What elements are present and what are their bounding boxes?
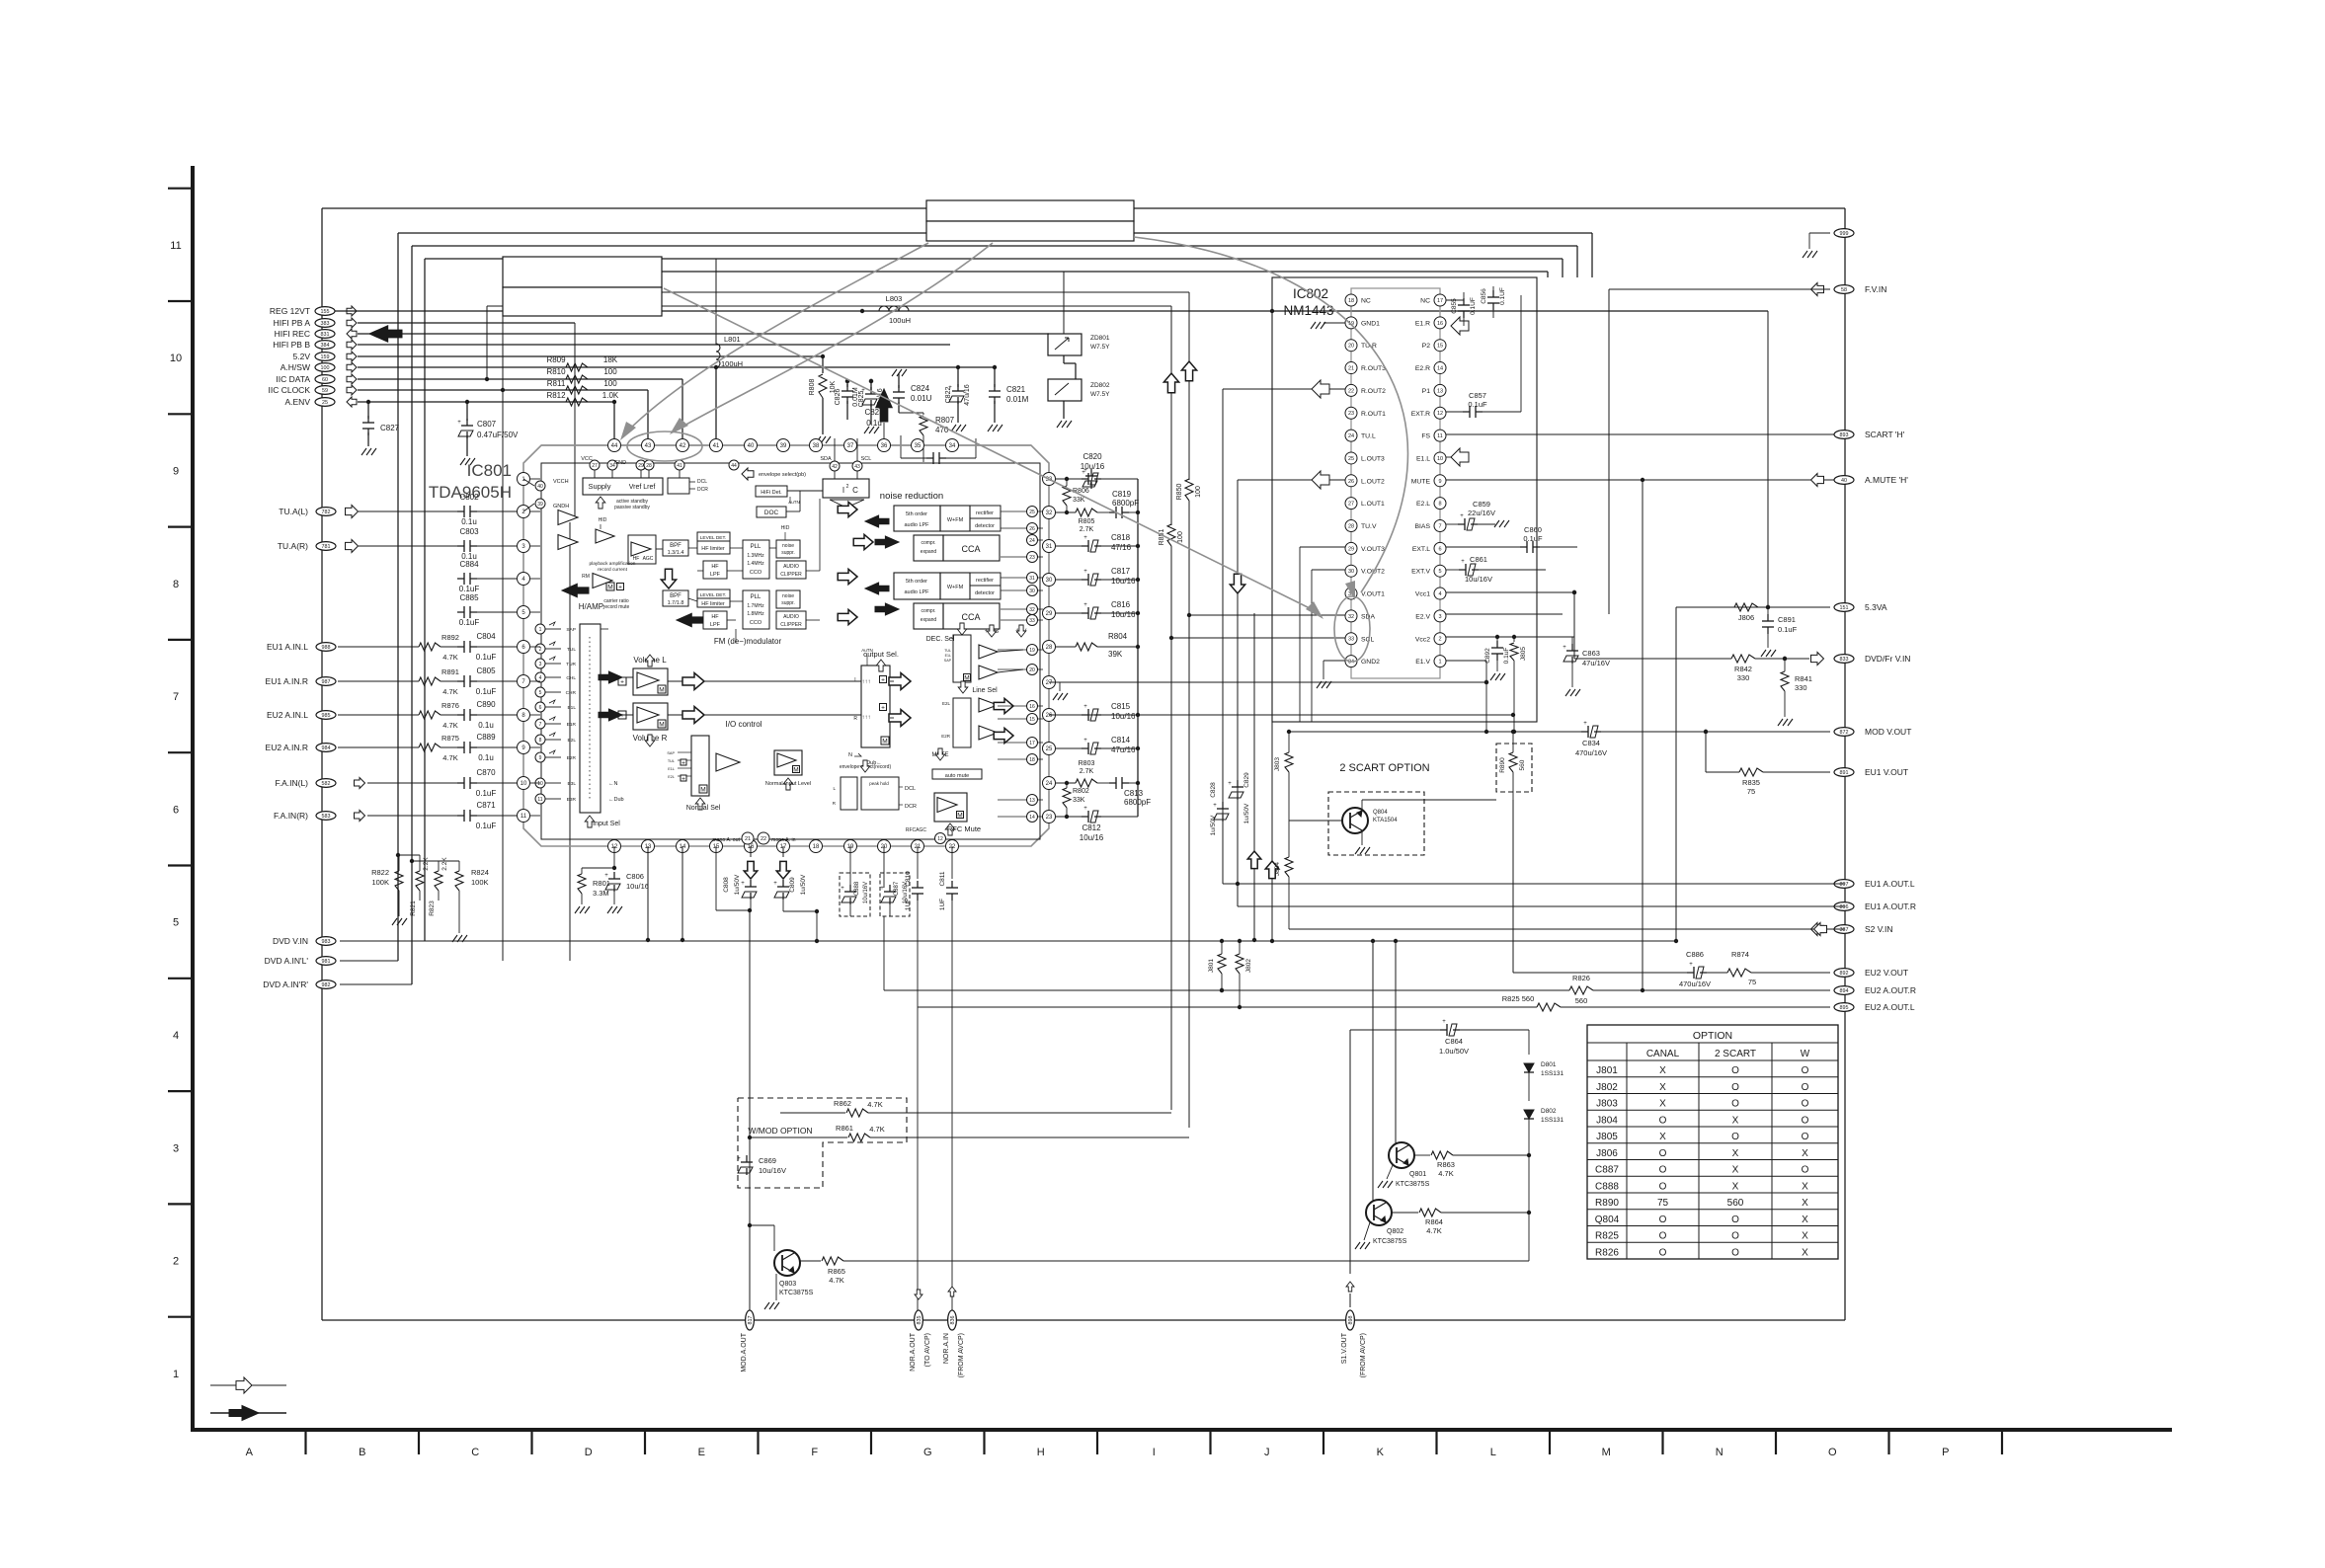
svg-text:W+FM: W+FM (947, 585, 964, 590)
svg-text:29: 29 (1046, 611, 1053, 617)
IC801 interior wires (601, 628, 608, 630)
svg-text:X: X (1802, 1215, 1808, 1225)
svg-text:58: 58 (1841, 287, 1847, 293)
svg-text:CCO: CCO (750, 620, 762, 626)
svg-text:O: O (1659, 1165, 1667, 1176)
svg-text:17: 17 (1029, 741, 1035, 746)
svg-text:100: 100 (603, 367, 617, 376)
svg-text:EU2 A.IN.L: EU2 A.IN.L (267, 710, 308, 720)
svg-text:C808: C808 (723, 877, 730, 893)
svg-text:W+FM: W+FM (947, 517, 964, 523)
svg-text:E2.R: E2.R (1415, 365, 1430, 372)
svg-text:8: 8 (539, 738, 542, 744)
svg-text:LPF: LPF (710, 572, 721, 578)
capacitor C804 (457, 646, 464, 648)
wire c829 column (1237, 480, 1239, 906)
wire F.V.IN (1609, 288, 1830, 290)
svg-text:13: 13 (1437, 388, 1443, 394)
svg-text:R891: R891 (441, 667, 459, 676)
capacitor C871 (457, 815, 464, 817)
svg-text:11: 11 (521, 814, 527, 820)
output sel block (861, 666, 890, 747)
NR arrows set2 (838, 569, 857, 584)
svg-text:10u/16: 10u/16 (1080, 833, 1104, 842)
svg-text:4.7K: 4.7K (1438, 1169, 1453, 1178)
wire Vcc1 (1446, 591, 1574, 593)
svg-text:28: 28 (646, 463, 652, 469)
svg-text:DOC: DOC (764, 510, 779, 516)
block LEVEL DET 2 (697, 589, 730, 598)
svg-text:330: 330 (1737, 673, 1750, 682)
svg-text:23: 23 (1348, 411, 1354, 417)
wire top bus 3 (425, 258, 1563, 260)
normal sel triangle (716, 753, 740, 771)
svg-text:+: + (457, 420, 461, 426)
svg-text:151: 151 (1840, 605, 1849, 611)
svg-text:12: 12 (1437, 411, 1443, 417)
block LEVEL DET 1 (697, 532, 730, 541)
svg-text:41: 41 (713, 443, 720, 449)
svg-text:C834: C834 (1582, 739, 1600, 747)
svg-text:M: M (700, 787, 705, 794)
svg-text:2.2K: 2.2K (423, 857, 430, 871)
svg-text:100: 100 (1195, 486, 1202, 498)
page border bottom (191, 1428, 2172, 1432)
wire pin14 down (681, 846, 683, 940)
block compressor expander 1 (914, 535, 943, 561)
svg-text:13: 13 (1029, 798, 1035, 804)
svg-text:E3L: E3L (567, 781, 576, 787)
resistor R823 (438, 861, 440, 871)
svg-text:1.0K: 1.0K (602, 391, 619, 400)
svg-text:C807: C807 (477, 420, 497, 429)
svg-text:0.1uF: 0.1uF (476, 789, 497, 798)
svg-text:+: + (1228, 781, 1232, 787)
transistor Q803 (748, 1223, 752, 1227)
svg-text:C871: C871 (476, 801, 496, 810)
svg-text:M: M (659, 687, 664, 694)
svg-text:E: E (698, 1447, 705, 1458)
wire A.ENV (358, 401, 614, 403)
svg-text:R812: R812 (546, 391, 566, 400)
block rectifier 1 (970, 506, 1001, 518)
svg-text:6: 6 (539, 705, 542, 711)
svg-text:896: 896 (1840, 904, 1849, 910)
svg-text:record current: record current (598, 567, 628, 573)
svg-text:E2R: E2R (567, 755, 577, 761)
svg-text:X: X (1802, 1198, 1808, 1209)
svg-text:155: 155 (321, 309, 330, 315)
svg-text:NC: NC (1420, 298, 1430, 305)
svg-text:3: 3 (1438, 614, 1441, 620)
block AUDIO CLIPPER 2 (776, 611, 806, 629)
svg-text:↑↑↑: ↑↑↑ (862, 715, 871, 721)
svg-text:E3R: E3R (567, 797, 577, 803)
arrow up 1270 (1247, 851, 1261, 869)
svg-text:M: M (882, 739, 887, 745)
svg-text:4.7K: 4.7K (442, 753, 457, 762)
svg-text:C887: C887 (1595, 1165, 1619, 1176)
capacitor C810 (917, 881, 919, 888)
svg-text:O: O (1802, 1165, 1809, 1176)
svg-text:noise: noise (782, 543, 794, 549)
svg-text:984: 984 (322, 745, 331, 751)
terminal 898 S1.V.OUT (1346, 1310, 1355, 1330)
capacitor C891 (1767, 607, 1769, 617)
block HF LPF 1 (703, 561, 727, 579)
svg-text:47u/16V: 47u/16V (1582, 659, 1610, 667)
wire HIFI PB B (358, 344, 950, 346)
svg-text:999: 999 (1840, 231, 1849, 237)
svg-text:+: + (1563, 645, 1566, 651)
svg-text:O: O (1659, 1215, 1667, 1225)
svg-text:100: 100 (603, 379, 617, 388)
svg-text:CLIPPER: CLIPPER (780, 622, 802, 628)
svg-text:C817: C817 (1111, 567, 1131, 576)
svg-text:compr.: compr. (921, 540, 935, 546)
svg-text:J802: J802 (1245, 959, 1252, 973)
block CCA 2 (943, 603, 1000, 629)
svg-text:30: 30 (1046, 578, 1053, 584)
svg-text:←N: ←N (608, 781, 618, 787)
svg-text:43: 43 (645, 443, 652, 449)
svg-text:SCART 'H': SCART 'H' (1865, 430, 1905, 439)
svg-text:KTA1504: KTA1504 (1373, 818, 1398, 823)
terminal 872 MOD V.OUT (1834, 728, 1854, 737)
svg-text:suppr.: suppr. (781, 600, 795, 606)
svg-text:2.7K: 2.7K (1080, 768, 1094, 775)
svg-text:Normal Sel: Normal Sel (686, 805, 721, 812)
svg-text:R805: R805 (1079, 518, 1095, 525)
input sel block (580, 624, 601, 813)
svg-text:891: 891 (1840, 770, 1849, 776)
OPTION table (1587, 1025, 1838, 1259)
wire DVD VIN long (340, 940, 1676, 942)
svg-text:C885: C885 (459, 593, 479, 602)
terminal 40 A.MUTE 'H' (1834, 476, 1854, 485)
wire IIC DATA bus (487, 305, 1171, 307)
wire Vcc2 (1446, 636, 1574, 638)
svg-text:L.OUT2: L.OUT2 (1361, 478, 1385, 485)
svg-text:10: 10 (521, 781, 527, 787)
capacitor C821 (994, 367, 996, 387)
svg-text:C860: C860 (1524, 525, 1542, 534)
svg-text:O: O (1659, 1181, 1667, 1192)
svg-text:4.7K: 4.7K (442, 721, 457, 730)
svg-text:R821: R821 (410, 901, 417, 916)
svg-text:R842: R842 (1734, 665, 1752, 673)
svg-text:+: + (1083, 602, 1087, 608)
terminal 836 NOR.A.IN (948, 1310, 957, 1330)
svg-text:S2 V.IN: S2 V.IN (1865, 924, 1893, 934)
svg-text:E1L: E1L (668, 767, 675, 771)
svg-text:892: 892 (1840, 971, 1849, 977)
wire IIC DATA (358, 378, 682, 380)
svg-text:2: 2 (173, 1256, 179, 1268)
capacitor C870 (457, 782, 464, 784)
svg-text:R822: R822 (371, 868, 389, 877)
svg-text:Q801: Q801 (1409, 1171, 1426, 1178)
capacitor C823 (901, 457, 926, 459)
capacitor C826 (846, 381, 848, 387)
svg-text:KTC3875S: KTC3875S (779, 1290, 814, 1296)
svg-text:J804: J804 (1274, 862, 1281, 876)
amp triangles input (558, 510, 578, 525)
IC802 arrow L.OUT2 (1238, 479, 1345, 481)
capacitor C887 (889, 885, 891, 892)
svg-text:DVD A.IN'R': DVD A.IN'R' (263, 980, 308, 989)
svg-text:39: 39 (537, 502, 543, 508)
svg-text:mono A. out: mono A. out (712, 837, 740, 843)
wire IC801 out L long (1049, 681, 1486, 683)
svg-text:+: + (1083, 806, 1087, 812)
svg-text:42: 42 (832, 464, 838, 470)
svg-text:0.1u: 0.1u (461, 517, 477, 526)
svg-text:B: B (359, 1447, 365, 1458)
svg-text:1: 1 (173, 1369, 179, 1380)
block arrow standby (596, 497, 605, 509)
svg-text:A.MUTE 'H': A.MUTE 'H' (1865, 475, 1908, 485)
svg-text:1u/50V: 1u/50V (1210, 815, 1217, 835)
svg-text:894: 894 (1840, 988, 1849, 994)
svg-text:6: 6 (1438, 546, 1441, 552)
svg-text:2: 2 (846, 484, 849, 490)
svg-text:Input Sel: Input Sel (593, 821, 620, 827)
block HiFi Det (756, 486, 787, 497)
svg-text:TUR: TUR (566, 662, 576, 667)
svg-text:R803: R803 (1079, 760, 1095, 767)
resistor R807 (899, 412, 923, 414)
svg-text:O: O (1802, 1115, 1809, 1126)
svg-text:2: 2 (539, 647, 542, 653)
svg-text:R807: R807 (935, 416, 955, 425)
svg-text:C824: C824 (911, 384, 930, 393)
svg-text:VCC: VCC (581, 456, 593, 462)
svg-text:981: 981 (322, 959, 331, 965)
svg-text:EXT.V: EXT.V (1411, 569, 1430, 576)
block 5th order audio LPF 1 (894, 506, 940, 531)
svg-text:C828: C828 (1210, 782, 1217, 798)
transistor Q804 (1342, 808, 1368, 833)
svg-text:40: 40 (1841, 478, 1847, 484)
terminal 893 SCART 'H' (1834, 431, 1854, 439)
svg-text:560: 560 (1727, 1198, 1744, 1209)
svg-text:27: 27 (1348, 502, 1354, 508)
IC801 pin 44 envelope (729, 460, 739, 470)
svg-text:DEC. Sel: DEC. Sel (926, 636, 955, 643)
block HF limiter 1 (697, 541, 730, 554)
grey leader curve to pin 44 (624, 243, 928, 434)
arrow down pin16 (750, 846, 752, 857)
svg-text:470u/16V: 470u/16V (1679, 980, 1711, 988)
wire volume L out (601, 676, 633, 678)
svg-text:5: 5 (173, 917, 179, 929)
svg-text:detector: detector (975, 590, 995, 596)
terminal 835 NOR.A.OUT (915, 1310, 923, 1330)
wire outer box bottom (322, 1319, 1845, 1321)
svg-text:0.1UF: 0.1UF (1470, 297, 1477, 315)
svg-text:MUTE: MUTE (1411, 478, 1431, 485)
svg-text:30: 30 (1029, 588, 1035, 594)
svg-text:47u/16: 47u/16 (1111, 745, 1136, 754)
svg-text:GND2: GND2 (1361, 659, 1380, 666)
svg-text:J801: J801 (1596, 1065, 1618, 1076)
svg-text:+: + (737, 1156, 741, 1162)
svg-text:W/MOD OPTION: W/MOD OPTION (748, 1126, 812, 1136)
svg-text:E1.L: E1.L (1416, 455, 1430, 462)
resistor R850 (1188, 292, 1190, 480)
svg-text:R825 560: R825 560 (1502, 994, 1535, 1003)
svg-text:985: 985 (322, 713, 331, 719)
svg-text:SCL: SCL (1361, 636, 1374, 643)
gnd under pin27 (1056, 681, 1060, 683)
svg-text:470u/16V: 470u/16V (1575, 748, 1607, 757)
svg-text:O: O (1731, 1215, 1739, 1225)
svg-text:2 SCART OPTION: 2 SCART OPTION (1339, 762, 1429, 774)
svg-text:26: 26 (1046, 713, 1053, 719)
svg-text:C869: C869 (759, 1156, 776, 1165)
svg-text:C820: C820 (1082, 452, 1102, 461)
capacitor C808 (715, 846, 717, 910)
svg-text:LEVEL DET.: LEVEL DET. (700, 535, 726, 541)
svg-text:C806: C806 (626, 872, 644, 881)
svg-text:HF: HF (711, 614, 719, 620)
svg-text:V.OUT3: V.OUT3 (1361, 546, 1385, 553)
svg-text:100uH: 100uH (721, 359, 743, 368)
svg-text:560: 560 (1575, 996, 1588, 1005)
svg-text:21: 21 (745, 836, 751, 842)
jumper J803 (1288, 732, 1290, 752)
svg-text:8: 8 (173, 579, 179, 590)
svg-text:897: 897 (1840, 882, 1849, 888)
svg-text:C816: C816 (1111, 600, 1131, 609)
svg-text:7: 7 (173, 691, 179, 703)
svg-text:Vref Lref: Vref Lref (629, 484, 656, 491)
svg-text:26: 26 (1348, 479, 1354, 485)
svg-text:100: 100 (1177, 531, 1184, 543)
IC801 right inner pins (1027, 507, 1038, 517)
wire REG 12VT (335, 310, 1768, 312)
IC801 right pins (1043, 473, 1056, 486)
svg-text:+: + (1083, 535, 1087, 541)
svg-text:47/16: 47/16 (1111, 543, 1132, 552)
svg-text:J806: J806 (1738, 613, 1754, 622)
svg-text:C815: C815 (1111, 702, 1131, 711)
svg-text:A.H/SW: A.H/SW (281, 362, 310, 372)
svg-text:L803: L803 (886, 294, 903, 303)
svg-text:+: + (1083, 468, 1087, 474)
svg-text:10u/16V: 10u/16V (863, 882, 869, 903)
svg-text:9: 9 (1438, 479, 1441, 485)
capacitor C892 (1496, 637, 1498, 644)
svg-text:NM1443: NM1443 (1283, 303, 1333, 318)
svg-text:75: 75 (1748, 978, 1756, 986)
svg-text:X: X (1802, 1231, 1808, 1242)
svg-text:20: 20 (1029, 667, 1035, 673)
resistor R806 (1066, 479, 1068, 486)
barrow down 1 (661, 569, 676, 588)
svg-text:27: 27 (592, 463, 598, 469)
svg-text:4.7K: 4.7K (442, 653, 457, 662)
svg-text:+: + (1460, 513, 1464, 519)
svg-text:passive standby: passive standby (614, 505, 650, 510)
svg-text:0.1uF: 0.1uF (459, 585, 480, 593)
legend open-arrow wire (210, 1384, 286, 1386)
block CCA 1 (943, 535, 1000, 561)
svg-text:2 SCART: 2 SCART (1715, 1049, 1756, 1059)
resistor R824 (458, 861, 460, 871)
svg-text:CHR: CHR (566, 690, 577, 696)
terminal 151 5.3VA (1834, 603, 1854, 612)
svg-text:R862: R862 (834, 1099, 851, 1108)
capacitor C802 (359, 510, 457, 512)
svg-text:O: O (1731, 1082, 1739, 1093)
svg-text:0.1u: 0.1u (478, 721, 494, 730)
capacitor C829 (1237, 780, 1239, 787)
svg-text:23: 23 (1046, 815, 1053, 821)
block DOC (757, 507, 786, 517)
svg-text:SCL: SCL (861, 456, 872, 462)
svg-text:Line Sel: Line Sel (972, 687, 998, 694)
svg-text:5.2V: 5.2V (293, 352, 311, 361)
svg-text:C884: C884 (459, 560, 479, 569)
svg-text:28: 28 (1348, 523, 1354, 529)
svg-text:39K: 39K (1108, 650, 1123, 659)
svg-text:C827: C827 (380, 424, 400, 432)
svg-text:IIC CLOCK: IIC CLOCK (268, 385, 310, 395)
svg-text:+: + (618, 584, 622, 590)
svg-text:P1: P1 (1422, 388, 1431, 395)
svg-text:LPF: LPF (710, 622, 721, 628)
svg-text:+: + (841, 886, 844, 892)
svg-text:PLL: PLL (751, 594, 762, 600)
resistor R890 (1512, 732, 1514, 752)
capacitor C814 (1056, 747, 1084, 749)
svg-text:R865: R865 (828, 1267, 845, 1276)
WMOD dashed box (738, 1098, 907, 1188)
svg-text:898: 898 (1348, 1316, 1354, 1325)
svg-text:1.4MHz: 1.4MHz (747, 561, 764, 567)
svg-text:Vcc1: Vcc1 (1415, 591, 1430, 598)
svg-text:EXT.R: EXT.R (1411, 411, 1430, 418)
wire EU2 AOUT R (884, 989, 1569, 991)
svg-text:C802: C802 (459, 493, 479, 502)
svg-text:6: 6 (173, 804, 179, 816)
IC802 right pin column (1434, 294, 1446, 306)
svg-text:RFC Mute: RFC Mute (947, 824, 981, 833)
svg-text:60: 60 (322, 377, 328, 383)
svg-text:GND: GND (614, 460, 626, 466)
svg-text:IC801: IC801 (467, 461, 512, 480)
IC802 outer box (1272, 277, 1537, 722)
wire HIFI PB A (358, 322, 575, 324)
svg-text:W7.5Y: W7.5Y (1090, 391, 1110, 398)
svg-text:C821: C821 (1006, 385, 1026, 394)
svg-text:EU2 V.OUT: EU2 V.OUT (1865, 968, 1908, 978)
svg-text:2.7K: 2.7K (1080, 526, 1094, 533)
svg-text:(FROM AVCP): (FROM AVCP) (958, 1333, 965, 1377)
svg-text:2: 2 (1438, 637, 1441, 643)
svg-text:C805: C805 (476, 666, 496, 675)
block BPF 1 (663, 540, 688, 556)
svg-text:KTC3875S: KTC3875S (1396, 1181, 1430, 1188)
diode D801 (1524, 1063, 1534, 1072)
svg-text:FS: FS (1421, 433, 1430, 440)
svg-text:33K: 33K (1073, 497, 1085, 504)
svg-text:5: 5 (1438, 569, 1441, 575)
jumper J805 (1513, 637, 1515, 642)
wire SDA bus to IC802 (1189, 614, 1345, 616)
